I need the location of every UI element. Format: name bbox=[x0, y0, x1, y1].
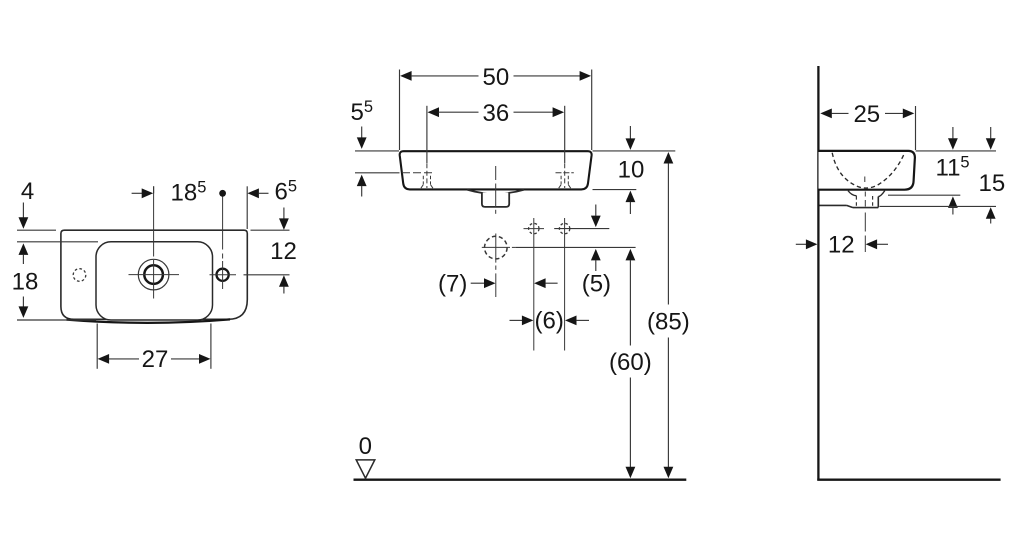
front view: mounting hole dashed circle bbox=[485, 236, 508, 259]
svg-text:4: 4 bbox=[21, 178, 34, 205]
side view: trap shroud bottom bbox=[853, 207, 878, 209]
dim 10 arrow down bbox=[629, 126, 631, 139]
dim (85) arrow down bbox=[664, 467, 674, 479]
floor line bbox=[354, 479, 687, 481]
side view: trap shroud right edge bbox=[877, 197, 879, 208]
mounting circle crosshair horizontal bbox=[482, 246, 510, 248]
side view: bracket line bbox=[820, 204, 847, 206]
top view: right hole crosshair vertical bbox=[222, 261, 224, 289]
front view: right tap hole center dash bbox=[564, 163, 566, 188]
top view: right hole center leader bbox=[222, 197, 224, 250]
dim 18.5 arrow bbox=[132, 192, 143, 194]
dim 12L arrow up bbox=[279, 275, 289, 287]
front view: right screw vertical line bbox=[564, 218, 566, 351]
screw hole reference line bbox=[554, 228, 609, 230]
dim 6.5 arrow bbox=[247, 188, 259, 198]
dim (85) line upper bbox=[667, 163, 669, 304]
svg-text:(60): (60) bbox=[609, 349, 652, 376]
side view: basin bottom reference line bbox=[888, 194, 960, 196]
dim 4 arrow down bbox=[22, 203, 24, 218]
svg-text:(7): (7) bbox=[438, 271, 467, 298]
side view: underside left curve bbox=[848, 191, 857, 196]
front view: bowl bottom curve bbox=[467, 190, 524, 194]
top view: front lip curve bbox=[67, 319, 231, 322]
svg-text:27: 27 bbox=[142, 346, 169, 373]
dim (60) line upper bbox=[629, 260, 631, 345]
top view: faucet crosshair horizontal bbox=[129, 274, 180, 276]
svg-text:15: 15 bbox=[979, 170, 1006, 197]
dim 18.5 end dot bbox=[219, 190, 226, 197]
dim 36 extension right bbox=[564, 106, 566, 163]
dim 5.5 top reference line bbox=[355, 150, 399, 152]
svg-text:36: 36 bbox=[483, 100, 510, 127]
svg-text:25: 25 bbox=[853, 101, 880, 128]
dim 50 extension left bbox=[399, 70, 401, 151]
svg-text:0: 0 bbox=[359, 433, 372, 460]
top view: washbasin outer body bbox=[61, 230, 247, 319]
dim 12L extension bottom bbox=[244, 274, 290, 276]
dim (6) arrow right bbox=[510, 319, 523, 321]
dim (7) arrow left bbox=[534, 278, 546, 288]
front view: basin outline bbox=[400, 151, 592, 189]
front view: right screw hole bbox=[559, 223, 569, 233]
top view: faucet hole inner circle bbox=[144, 265, 163, 284]
front view: drain boss bbox=[482, 193, 509, 207]
svg-text:10: 10 bbox=[618, 156, 645, 183]
dim 15 arrow up bbox=[986, 207, 996, 219]
side view: drain center line bbox=[864, 192, 866, 197]
dim 6.5 extension line bbox=[246, 186, 248, 229]
side view: floor line bbox=[817, 479, 1000, 481]
front view: left screw vertical line bbox=[533, 218, 535, 351]
svg-text:18: 18 bbox=[12, 269, 39, 296]
datum triangle symbol bbox=[356, 460, 375, 478]
front view: left tap hole cone bbox=[422, 176, 424, 185]
dim (60) arrow up bbox=[626, 249, 636, 261]
dim (85) line lower bbox=[667, 338, 669, 468]
side view: underside right curve bbox=[878, 191, 885, 197]
dim (85) arrow up bbox=[664, 152, 674, 164]
top view: overflow dashed circle bbox=[73, 269, 86, 282]
side view: top reference line bbox=[916, 150, 996, 152]
svg-text:12: 12 bbox=[270, 238, 297, 265]
front view: right tap hole axis dash bbox=[556, 172, 574, 174]
side view: wall line bbox=[817, 66, 819, 481]
top view: inner basin rim bbox=[96, 242, 213, 320]
dim 18 extension bottom bbox=[17, 319, 96, 321]
dim 11.5 arrow down bbox=[952, 127, 954, 138]
dim 10 arrow up bbox=[626, 191, 636, 203]
dim (5) mounting reference line bbox=[516, 246, 636, 248]
dim (5) arrow down bbox=[595, 205, 597, 216]
dim 18 extension inner rim bbox=[17, 241, 98, 243]
dim 4 extension line top edge bbox=[17, 229, 56, 231]
top view: faucet hole outer circle bbox=[138, 259, 169, 290]
dim 25 extension line bbox=[915, 106, 917, 150]
top view: faucet center line vertical bbox=[153, 186, 155, 256]
dim 18 lower arrow bbox=[22, 297, 24, 307]
dim 50 extension right bbox=[591, 70, 593, 151]
dim 12S arrow right bbox=[796, 243, 807, 245]
dim 18 upper arrow bbox=[19, 243, 29, 255]
dim 36 extension left bbox=[426, 106, 428, 163]
front view: vertical center line bbox=[495, 166, 497, 180]
svg-text:(85): (85) bbox=[647, 308, 690, 335]
dim 10 top reference line bbox=[593, 150, 676, 152]
dim (60) arrow down bbox=[626, 467, 636, 479]
svg-text:(6): (6) bbox=[535, 308, 564, 335]
side view: trap hidden edges bbox=[855, 196, 857, 207]
front view: right tap hole cone bbox=[560, 176, 562, 185]
side view: inner bowl dashed bbox=[832, 153, 904, 188]
dim (60) line lower bbox=[629, 378, 631, 468]
dim 15 arrow down bbox=[990, 127, 992, 138]
dim (5) arrow up bbox=[591, 249, 601, 261]
dim 50 line bbox=[400, 71, 412, 81]
side view: basin profile bbox=[819, 151, 915, 190]
top view: right tap hole circle bbox=[217, 269, 229, 281]
dim 5.5 tap axis reference line bbox=[355, 172, 400, 174]
dim 12S arrow left bbox=[866, 239, 878, 249]
dim 12L arrow down bbox=[283, 208, 285, 219]
dim 5.5 arrow up bbox=[357, 175, 367, 187]
mounting circle crosshair vertical bbox=[495, 234, 497, 263]
dim 10 bottom reference line bbox=[593, 189, 637, 191]
top view: right hole crosshair horizontal bbox=[210, 274, 237, 276]
side view: overflow dash bbox=[864, 177, 866, 183]
side view: bracket reference line bbox=[880, 205, 997, 207]
dim 25 line bbox=[820, 109, 832, 119]
dim 36 line bbox=[428, 107, 440, 117]
dim (6) arrow left bbox=[565, 316, 577, 326]
dim 5.5 arrow down bbox=[361, 127, 363, 138]
dim 27 extension left bbox=[96, 324, 98, 369]
dim (7) arrow right bbox=[471, 282, 485, 284]
svg-text:50: 50 bbox=[483, 64, 510, 91]
side view: bracket chamfer bbox=[847, 205, 853, 207]
dim 12L extension top bbox=[251, 229, 290, 231]
front view: left screw hole bbox=[529, 223, 539, 233]
dim 27 line bbox=[108, 358, 139, 360]
dim 27 extension right bbox=[210, 324, 212, 369]
dim 11.5 arrow up bbox=[948, 196, 958, 208]
svg-text:(5): (5) bbox=[582, 271, 611, 298]
front view: left tap hole center dash bbox=[426, 163, 428, 188]
dim 18.5 leader line bbox=[153, 186, 155, 193]
svg-text:12: 12 bbox=[828, 232, 855, 259]
